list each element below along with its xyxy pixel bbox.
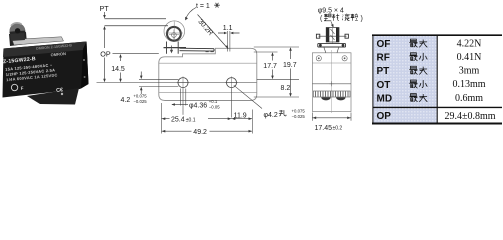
svg-text:11.9: 11.9 xyxy=(234,113,247,120)
svg-text:49.2: 49.2 xyxy=(193,129,207,136)
svg-text:φ9.5 × 4: φ9.5 × 4 xyxy=(318,7,344,14)
svg-text:−0.025: −0.025 xyxy=(133,99,147,104)
svg-text:+0.1: +0.1 xyxy=(209,99,218,104)
svg-text:(: ( xyxy=(320,15,323,22)
svg-text:0.6mm: 0.6mm xyxy=(455,93,483,104)
svg-text:+0.075: +0.075 xyxy=(292,109,306,114)
svg-text:±0.1: ±0.1 xyxy=(186,117,196,123)
svg-text:φ4.36: φ4.36 xyxy=(189,102,207,109)
svg-text:−0.025: −0.025 xyxy=(292,114,306,119)
svg-text:φ4.2: φ4.2 xyxy=(264,112,278,119)
svg-text:±0.2: ±0.2 xyxy=(333,126,343,132)
svg-text:29.4±0.8mm: 29.4±0.8mm xyxy=(444,111,495,122)
svg-text:PT: PT xyxy=(100,4,110,13)
svg-text:4.22N: 4.22N xyxy=(457,38,482,49)
svg-text:30.2R: 30.2R xyxy=(196,18,214,37)
svg-text:1.1: 1.1 xyxy=(223,25,233,32)
svg-text:OP: OP xyxy=(100,50,111,59)
svg-text:4.2: 4.2 xyxy=(121,97,131,104)
svg-text:17.7: 17.7 xyxy=(263,63,277,70)
svg-text:−0.05: −0.05 xyxy=(209,105,220,110)
svg-text:8.2: 8.2 xyxy=(281,85,291,92)
svg-text:t = 1: t = 1 xyxy=(196,3,210,10)
svg-text:PT: PT xyxy=(377,66,390,77)
svg-text:3mm: 3mm xyxy=(459,66,480,77)
svg-text:OP: OP xyxy=(377,111,392,122)
svg-text:): ) xyxy=(361,15,363,22)
svg-text:RF: RF xyxy=(377,53,390,64)
svg-text:MD: MD xyxy=(377,94,393,105)
svg-text:0.13mm: 0.13mm xyxy=(452,79,485,90)
svg-text:0.41N: 0.41N xyxy=(457,52,482,63)
svg-text:C€: C€ xyxy=(56,87,64,94)
svg-text:OT: OT xyxy=(377,80,391,91)
svg-text:17.45: 17.45 xyxy=(315,125,333,132)
svg-text:OF: OF xyxy=(377,39,391,50)
svg-text:25.4: 25.4 xyxy=(171,117,185,124)
svg-text:19.7: 19.7 xyxy=(283,62,297,69)
svg-text:+0.075: +0.075 xyxy=(133,94,147,99)
svg-text:14.5: 14.5 xyxy=(111,66,125,73)
